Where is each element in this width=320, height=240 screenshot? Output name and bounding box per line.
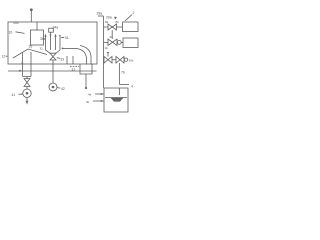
- svg-text:7b: 7b: [121, 70, 125, 74]
- svg-text:8b: 8b: [116, 20, 120, 24]
- svg-text:1b: 1b: [105, 46, 109, 50]
- svg-text:42: 42: [61, 87, 65, 91]
- svg-text:32: 32: [40, 47, 44, 51]
- svg-text:41: 41: [12, 93, 16, 97]
- svg-text:2: 2: [133, 11, 135, 15]
- svg-text:11: 11: [72, 68, 76, 72]
- svg-text:4: 4: [131, 84, 133, 88]
- svg-text:35: 35: [29, 44, 33, 48]
- svg-text:29a: 29a: [97, 11, 103, 15]
- svg-text:8a: 8a: [105, 20, 109, 24]
- svg-text:4a: 4a: [88, 93, 92, 97]
- svg-text:4b: 4b: [86, 100, 90, 104]
- svg-text:100: 100: [13, 21, 19, 25]
- svg-text:12: 12: [2, 55, 6, 59]
- svg-text:33: 33: [60, 57, 64, 61]
- svg-text:36: 36: [40, 37, 44, 41]
- svg-text:31: 31: [65, 36, 69, 40]
- svg-text:10: 10: [9, 31, 13, 35]
- svg-text:36: 36: [110, 35, 114, 39]
- svg-text:30b: 30b: [129, 58, 134, 62]
- svg-text:20a: 20a: [106, 15, 112, 19]
- svg-text:34a: 34a: [53, 25, 59, 29]
